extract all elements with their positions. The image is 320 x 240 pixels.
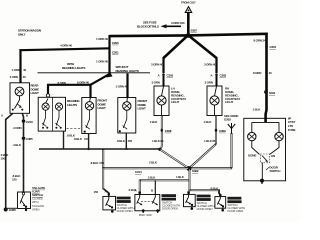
svg-text:SWITCH: SWITCH bbox=[270, 169, 281, 173]
label LH REAR DOOR JAMB SWITCH center bbox=[162, 194, 180, 210]
svg-text:4 ORN 40: 4 ORN 40 bbox=[60, 44, 72, 48]
wire without-reading feed drop x127.5 bbox=[126, 73, 128, 97]
svg-text:1 BLK: 1 BLK bbox=[253, 107, 262, 111]
svg-text:G303: G303 bbox=[224, 118, 231, 122]
arrow to fuse block bbox=[161, 24, 182, 28]
svg-text:DOOR OPEN: DOOR OPEN bbox=[227, 209, 243, 213]
svg-text:LIGHTS: LIGHTS bbox=[67, 103, 77, 107]
splice S311 bbox=[264, 90, 276, 95]
chassis ground symbol G303 bbox=[224, 114, 239, 133]
svg-text:8 ORN 340: 8 ORN 340 bbox=[254, 38, 268, 42]
svg-text:A: A bbox=[211, 73, 214, 77]
wire corner down at x109.5 bbox=[108, 35, 110, 73]
center door jamb switches box (double) bbox=[135, 195, 160, 211]
wire bus drop to W1 at x103 bbox=[102, 149, 104, 168]
svg-text:OPEN: OPEN bbox=[32, 207, 39, 211]
svg-text:DOOR OPEN: DOOR OPEN bbox=[162, 207, 178, 211]
label READING LIGHTS bbox=[67, 99, 80, 107]
wire main feed right corner down x266.5 bbox=[264, 33, 267, 123]
svg-text:B: B bbox=[151, 189, 154, 193]
wire pin B down to tailgate switch bbox=[22, 113, 23, 192]
lamp LH dome bbox=[157, 86, 166, 115]
lamp rear dome bbox=[15, 87, 24, 96]
stub and dot below box1 bbox=[111, 210, 114, 213]
svg-text:BODY GRD: BODY GRD bbox=[139, 214, 152, 217]
switch tailgate ajar bbox=[20, 192, 27, 208]
diagonal left dome feed from fuse: S307 to x163.5 bbox=[164, 36, 188, 58]
ground G305 dot bbox=[4, 208, 16, 213]
svg-text:.8 BLK: .8 BLK bbox=[117, 139, 126, 143]
switch reading right bbox=[55, 110, 61, 129]
front dome light box (with reading) bbox=[82, 98, 96, 134]
stub and dot below box3 bbox=[191, 207, 194, 210]
label .8 BLK 150 dome bbox=[74, 137, 89, 141]
IP box top rail bbox=[252, 121, 279, 123]
svg-text:150: 150 bbox=[1, 157, 6, 161]
wire switch to box bottom bbox=[261, 163, 263, 181]
svg-text:1 BLK: 1 BLK bbox=[176, 175, 185, 179]
svg-text:6 BLK: 6 BLK bbox=[211, 186, 220, 190]
label 1 ORN + connector on x20.5 bbox=[12, 68, 27, 72]
svg-text:C200: C200 bbox=[112, 41, 119, 45]
wire left dome drop to box bbox=[163, 76, 165, 86]
wire left dome drop x163.5 bbox=[162, 57, 164, 73]
svg-text:3 ORN 40: 3 ORN 40 bbox=[204, 62, 216, 66]
tailgate ajar switch box bbox=[18, 192, 31, 209]
label SEE FUSE BLOCK DETAILS bbox=[137, 21, 159, 29]
svg-text:C302: C302 bbox=[167, 73, 174, 77]
connector C200 on x109.5 bbox=[108, 41, 119, 45]
svg-text:C305: C305 bbox=[26, 137, 33, 141]
tick below dot bbox=[261, 181, 263, 184]
svg-text:2 BLK: 2 BLK bbox=[149, 160, 158, 164]
wire W2 corner down to box2 left bbox=[139, 180, 141, 195]
rear dome light box bbox=[10, 83, 30, 114]
label FRONT DOME LIGHT (with) bbox=[98, 99, 108, 111]
wire without dome ground drop bbox=[125, 133, 127, 149]
svg-text:1 BLK 86: 1 BLK 86 bbox=[204, 139, 216, 143]
label 4 BLK 150 bbox=[1, 153, 10, 161]
switch RH front jamb bbox=[186, 194, 194, 206]
svg-text:1 BLK: 1 BLK bbox=[204, 120, 213, 124]
switch LH front jamb bbox=[106, 196, 114, 208]
wire tailgate switch to ground bbox=[6, 207, 18, 209]
svg-text:BLOCK DETAILS: BLOCK DETAILS bbox=[137, 25, 159, 29]
RH front door jamb switch box bbox=[184, 194, 196, 206]
wire reading lights ground drop bbox=[63, 131, 65, 149]
lamp reading left bbox=[42, 99, 49, 111]
label .8 BLK 150 bus drop bbox=[90, 161, 104, 165]
wire right dome drop to box bbox=[216, 76, 218, 86]
svg-text:LIGHT: LIGHT bbox=[171, 100, 179, 104]
diagonal LH ground to S310 bbox=[160, 149, 189, 168]
svg-text:C213: C213 bbox=[26, 120, 33, 124]
svg-text:C201: C201 bbox=[112, 50, 119, 54]
junction arrow at divider bbox=[106, 73, 113, 78]
connector C302 left dome bbox=[158, 73, 174, 77]
svg-text:C308: C308 bbox=[165, 129, 172, 133]
wire RH dome ground to diagonal bbox=[215, 131, 217, 144]
svg-text:S307: S307 bbox=[191, 29, 198, 33]
svg-text:3 ORN 340: 3 ORN 340 bbox=[171, 21, 185, 25]
LH front door jamb switch box bbox=[103, 196, 116, 210]
label TAILGATE AJAR SWITCH CLOSED WITH TAILGATE OPEN bbox=[32, 186, 45, 212]
RH rear door jamb switch box bbox=[215, 197, 226, 209]
wire W2 from S310 vertical bbox=[140, 179, 190, 181]
junction dome ground and bus bbox=[87, 148, 89, 150]
label right of IP box bbox=[288, 116, 295, 131]
svg-text:C210: C210 bbox=[270, 45, 277, 49]
entry dot box2 left bbox=[138, 191, 141, 194]
label FRONT DOME LIGHT (without) bbox=[138, 99, 148, 111]
label STATION WAGON ONLY bbox=[18, 29, 41, 37]
label LH FRONT DOOR JAMB SWITCH bbox=[117, 197, 135, 213]
label WITH READING LIGHTS bbox=[62, 62, 85, 70]
wire main feed right at y35 bbox=[188, 34, 267, 36]
connector triangle C917 bbox=[185, 7, 191, 13]
svg-text:1 BLK: 1 BLK bbox=[150, 120, 159, 124]
svg-text:S309: S309 bbox=[192, 169, 199, 173]
label .8 BLK 150 without bbox=[117, 139, 133, 143]
lamp IP right bbox=[275, 132, 283, 140]
label REAR DOME LIGHT bbox=[31, 84, 40, 96]
wire rail drops to lamps bbox=[252, 122, 279, 132]
wire ground stem down to WR bbox=[231, 133, 233, 168]
section divider line WITH/WITHOUT READING LIGHTS bbox=[38, 72, 151, 74]
connector C213 on tailgate wire bbox=[22, 120, 33, 124]
label WITHOUT READING LIGHTS bbox=[116, 65, 139, 73]
svg-text:ON: ON bbox=[271, 154, 275, 158]
switch in rear dome box bbox=[12, 96, 23, 111]
wire station wagon drop x20.5 bbox=[19, 49, 21, 83]
label 8 ORN 40 right bbox=[253, 71, 272, 75]
svg-text:C303: C303 bbox=[220, 73, 227, 77]
svg-text:A: A bbox=[158, 73, 161, 77]
wire pin A down-left to ground column bbox=[6, 113, 13, 208]
connector C201 below junction bbox=[108, 50, 119, 54]
switch reading left bbox=[42, 110, 48, 129]
svg-text:1 BLK: 1 BLK bbox=[148, 176, 157, 180]
svg-text:1 ORN 40: 1 ORN 40 bbox=[96, 59, 108, 63]
svg-text:C309: C309 bbox=[219, 129, 226, 133]
dashed link reading to dome bbox=[67, 127, 82, 129]
svg-text:150: 150 bbox=[12, 178, 17, 182]
wire horizontal y85 to reading lights bbox=[48, 85, 92, 94]
wire W2 drop to box2 right bbox=[154, 180, 156, 194]
reading lights box bbox=[38, 97, 65, 131]
IP courtesy lights box bbox=[244, 118, 286, 181]
wire branch down to front dome bbox=[89, 84, 91, 98]
junction dot on IP box bottom bbox=[260, 179, 264, 183]
svg-text:READING LIGHTS: READING LIGHTS bbox=[62, 66, 85, 70]
switch front dome bbox=[84, 110, 90, 133]
svg-text:A: A bbox=[135, 189, 138, 193]
wire main feed left at y35 bbox=[110, 34, 189, 37]
wire W1 corner down to LH front jamb switch bbox=[102, 167, 104, 189]
svg-text:S311: S311 bbox=[269, 91, 276, 95]
node FROM C917 label bbox=[181, 0, 196, 4]
svg-text:3 ORN: 3 ORN bbox=[205, 80, 213, 84]
svg-text:150: 150 bbox=[128, 139, 133, 143]
svg-text:LIGHT: LIGHT bbox=[225, 100, 233, 104]
wire WR junction to ground stem bbox=[189, 167, 232, 169]
wire feeder jog into box1 bbox=[103, 189, 110, 197]
label LH DOME READING COURTESY LIGHT bbox=[171, 87, 186, 105]
svg-text:150: 150 bbox=[84, 137, 89, 141]
entry dot box4 bbox=[219, 194, 222, 197]
svg-text:ONLY: ONLY bbox=[18, 32, 26, 36]
svg-text:READING LIGHTS: READING LIGHTS bbox=[116, 69, 139, 73]
svg-text:150: 150 bbox=[94, 190, 99, 194]
diagonal RH ground to S310 bbox=[189, 144, 216, 168]
svg-text:B: B bbox=[26, 114, 29, 118]
label 4 ORN 40 bbox=[10, 75, 26, 79]
LH dome courtesy light box bbox=[154, 86, 169, 116]
svg-text:DOOR OPEN: DOOR OPEN bbox=[197, 207, 213, 211]
wire front dome ground drop bbox=[88, 134, 90, 150]
svg-text:LIGHT: LIGHT bbox=[98, 106, 106, 110]
svg-text:DOME: DOME bbox=[248, 153, 256, 157]
reading lights box divider bbox=[52, 97, 54, 131]
RH dome courtesy light box bbox=[207, 86, 222, 116]
stub below tailgate box bbox=[25, 208, 27, 210]
lamp RH dome bbox=[210, 86, 219, 115]
svg-text:.4 ORN: .4 ORN bbox=[13, 126, 22, 130]
wire feed from C917 down to splice S307 bbox=[187, 13, 190, 35]
stub and dot below box4 bbox=[221, 208, 224, 211]
svg-text:LIGHT: LIGHT bbox=[138, 107, 146, 111]
wire RH dome ground down bbox=[215, 116, 217, 129]
svg-text:40: 40 bbox=[269, 71, 272, 75]
svg-text:DOOR OPEN: DOOR OPEN bbox=[117, 209, 133, 213]
switch front dome without bbox=[119, 110, 127, 132]
lamp front dome bbox=[85, 98, 93, 111]
label RH FRONT DOOR JAMB SWITCH bbox=[197, 195, 215, 211]
wire W1 left from S310 bbox=[103, 167, 189, 169]
svg-text:LIGHT: LIGHT bbox=[31, 91, 39, 95]
wire with-reading feed diagonal bbox=[91, 73, 111, 84]
switch IP courtesy bbox=[260, 154, 269, 163]
wire branch left at y48.5 to station wagon bbox=[21, 48, 111, 51]
junction bus + LH dome bbox=[158, 148, 161, 151]
wire LH dome ground down bbox=[161, 116, 163, 129]
label RH REAR DOOR JAMB SWITCH bbox=[227, 197, 245, 213]
mechanical link dash center bbox=[141, 200, 154, 202]
wires lamps to switch bbox=[252, 141, 260, 155]
wire S310 vertical down bbox=[188, 169, 191, 195]
svg-text:1 ORN 40: 1 ORN 40 bbox=[116, 85, 128, 89]
svg-text:1 ORN: 1 ORN bbox=[12, 68, 20, 72]
switch center right bbox=[152, 195, 159, 214]
svg-text:.4 BLK: .4 BLK bbox=[13, 143, 22, 147]
entry dot box3 bbox=[187, 191, 190, 194]
svg-text:1 ORN 40: 1 ORN 40 bbox=[96, 37, 108, 41]
switch RH rear jamb bbox=[217, 197, 224, 208]
svg-text:3 ORN 40: 3 ORN 40 bbox=[151, 62, 163, 66]
svg-text:FROM C917: FROM C917 bbox=[181, 0, 196, 4]
svg-text:A: A bbox=[1, 114, 4, 118]
svg-text:C214: C214 bbox=[135, 170, 142, 174]
connector C308 LH bbox=[161, 129, 172, 133]
svg-text:1 BLK 85: 1 BLK 85 bbox=[152, 139, 164, 143]
label DOOR SWITCH bbox=[266, 165, 280, 173]
lamp IP left bbox=[248, 132, 256, 140]
connector C305 on tailgate wire bbox=[22, 137, 33, 141]
svg-text:40: 40 bbox=[23, 68, 26, 72]
wire right dome drop x216.5 bbox=[215, 57, 217, 73]
ground bus y149 bbox=[39, 148, 160, 150]
svg-text:.8 BLK: .8 BLK bbox=[74, 137, 83, 141]
connector C303 right dome bbox=[211, 73, 227, 77]
wire LH dome ground to splice bbox=[160, 131, 162, 149]
connector C309 RH bbox=[215, 129, 226, 133]
svg-text:40: 40 bbox=[23, 75, 26, 79]
splice S307 junction dot bbox=[186, 33, 191, 38]
svg-text:8 ORN: 8 ORN bbox=[253, 71, 261, 75]
svg-text:4 ORN: 4 ORN bbox=[10, 75, 18, 79]
wire W3 to RH rear jamb bbox=[190, 190, 221, 195]
svg-text:3 ORN: 3 ORN bbox=[152, 80, 160, 84]
label RH DOME READING COURTESY LIGHT bbox=[225, 87, 240, 105]
splice S310 junction dot bbox=[187, 166, 199, 173]
svg-text:.8 BLK 150: .8 BLK 150 bbox=[90, 161, 104, 165]
label .8 BLK 150 bbox=[12, 174, 21, 182]
lamp reading right bbox=[55, 103, 62, 110]
svg-text:FUSE: FUSE bbox=[288, 128, 295, 132]
terminal circle at reading lights box bbox=[46, 94, 49, 97]
front dome light box (without reading) bbox=[118, 98, 136, 134]
connector C210 right bbox=[265, 45, 276, 49]
diagonal right dome feed S307 to x216.5 bbox=[190, 36, 217, 58]
lamp front dome without bbox=[123, 98, 131, 111]
switch center left bbox=[137, 195, 145, 214]
